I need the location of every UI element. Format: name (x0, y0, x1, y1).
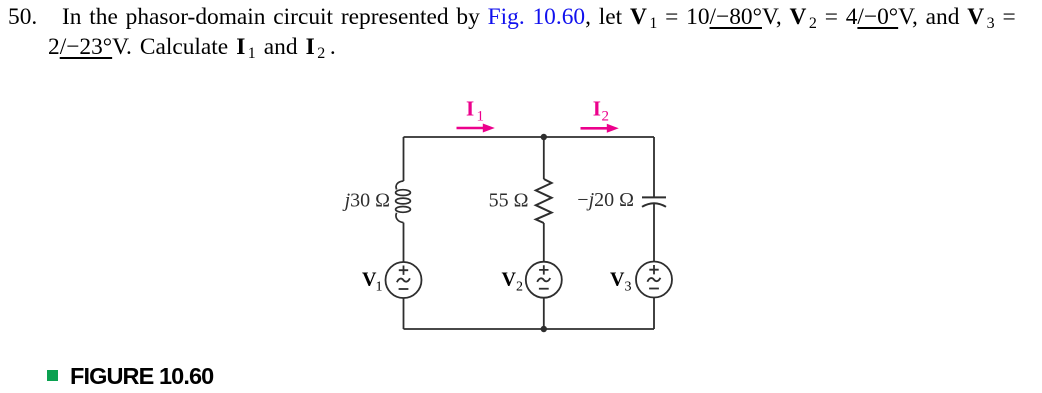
wire middle branch top (543, 137, 545, 179)
svg-text:1: 1 (376, 280, 383, 295)
svg-text:I: I (593, 97, 601, 121)
svg-text:2: 2 (516, 280, 523, 295)
wire left branch middle (403, 223, 405, 262)
voltage source V1 circle (386, 262, 422, 298)
svg-text:3: 3 (625, 280, 632, 295)
voltage source V2 circle (526, 262, 562, 298)
problem number 50. (8, 6, 37, 29)
wire bottom rail (404, 328, 655, 330)
wire right branch bottom (653, 298, 655, 329)
wire middle branch bottom (543, 298, 545, 329)
wire left branch top (403, 137, 405, 181)
resistor R1 55 ohm (536, 179, 552, 223)
svg-text:V: V (502, 269, 517, 291)
svg-text:j30 Ω: j30 Ω (342, 190, 390, 212)
problem text line 1 (62, 6, 1016, 29)
wire right branch top (653, 137, 655, 197)
svg-text:−j20 Ω: −j20 Ω (577, 189, 634, 211)
svg-text:V: V (610, 269, 625, 291)
wire right branch middle (653, 204, 655, 262)
figure caption green square (47, 370, 58, 381)
problem text line 2 (48, 36, 336, 59)
junction dot bottom (541, 326, 547, 332)
inductor L1 j30 ohm (396, 181, 411, 223)
capacitor C1 -j20 ohm (642, 197, 666, 206)
current arrow I1 (457, 124, 495, 133)
svg-text:2: 2 (602, 109, 610, 125)
current arrow I2 (581, 124, 619, 133)
node A junction dot top (541, 134, 547, 140)
svg-text:I: I (466, 97, 474, 121)
wire middle branch middle (543, 223, 545, 262)
voltage source V3 circle (636, 262, 672, 298)
svg-text:55 Ω: 55 Ω (489, 190, 529, 212)
wire left branch bottom (403, 298, 405, 329)
figure caption (70, 365, 213, 389)
svg-text:1: 1 (477, 109, 485, 125)
wire top (node A rail) (404, 136, 655, 138)
